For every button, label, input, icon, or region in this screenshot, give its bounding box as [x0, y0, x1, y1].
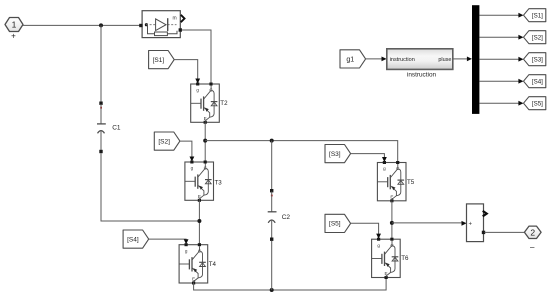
wire instruction to demux	[453, 58, 468, 60]
wire S3 to T5 gate	[351, 154, 385, 158]
wire g1 to instruction	[366, 58, 382, 60]
svg-text:[S5]: [S5]	[329, 221, 341, 228]
svg-text:T5: T5	[407, 179, 415, 186]
svg-text:T3: T3	[215, 179, 223, 186]
svg-text:1: 1	[12, 20, 17, 30]
from tag [S5]	[325, 214, 351, 232]
from tag [S1]	[149, 51, 175, 69]
node T5E junction	[390, 221, 394, 225]
IGBT T6	[372, 238, 409, 279]
goto tag [S4]	[524, 75, 546, 88]
svg-text:[S3]: [S3]	[532, 57, 543, 64]
wire junction to measurement	[392, 222, 462, 224]
svg-text:instruction: instruction	[407, 71, 437, 78]
wire demux to goto S3	[479, 58, 519, 60]
svg-text:T2: T2	[220, 100, 228, 107]
wire T3 emitter down	[198, 200, 200, 243]
goto tag [S5]	[524, 97, 546, 110]
svg-text:instruction: instruction	[390, 57, 415, 63]
wire demux to goto S2	[479, 36, 519, 38]
from tag [S4]	[123, 230, 149, 248]
svg-text:C1: C1	[112, 124, 121, 131]
node C2 bottom	[270, 288, 274, 292]
wire T2 emitter to bus	[204, 122, 206, 161]
svg-text:[S4]: [S4]	[532, 79, 543, 86]
wire demux to goto S4	[479, 80, 519, 82]
wire demux to goto S5	[479, 102, 519, 104]
node C2 top branch	[270, 139, 274, 143]
from tag [S2]	[154, 132, 180, 150]
output port 2	[524, 226, 541, 251]
svg-text:[S5]: [S5]	[532, 101, 543, 108]
wire T4 emitter to bottom bus	[194, 278, 387, 290]
svg-text:2: 2	[530, 227, 535, 237]
node T2E bus	[203, 139, 207, 143]
wire S4 to T4 gate	[149, 238, 186, 241]
voltage measurement block	[467, 204, 487, 242]
wire S2 to T3 gate	[180, 141, 192, 157]
wire diode out to T2 collector	[182, 30, 212, 83]
wire S1 to T2 gate	[174, 60, 198, 79]
svg-text:+: +	[11, 32, 16, 41]
node junction C1 top	[99, 23, 103, 27]
goto tag [S1]	[524, 9, 546, 22]
svg-text:[S2]: [S2]	[532, 35, 543, 42]
wire measurement to port 2	[485, 231, 525, 233]
svg-text:[S4]: [S4]	[127, 236, 139, 243]
svg-text:C2: C2	[282, 214, 291, 221]
IGBT T2	[191, 83, 228, 124]
capacitor C2	[268, 141, 291, 290]
IGBT T5	[377, 161, 414, 202]
capacitor C1	[97, 25, 199, 221]
wire S5 to T6 gate	[351, 223, 379, 234]
from tag [S3]	[325, 145, 351, 163]
svg-text:[S1]: [S1]	[532, 13, 543, 20]
demux	[472, 5, 479, 114]
svg-text:T6: T6	[401, 255, 409, 262]
svg-text:m: m	[173, 16, 177, 22]
from tag g1	[340, 50, 366, 68]
svg-text:+: +	[468, 221, 472, 227]
IGBT T3	[185, 161, 222, 202]
subsystem instruction	[387, 49, 453, 79]
wire input1 to diode	[23, 24, 140, 26]
svg-text:T4: T4	[209, 261, 217, 268]
svg-text:–: –	[530, 243, 535, 252]
svg-text:[S1]: [S1]	[153, 57, 165, 64]
svg-text:pluse: pluse	[438, 57, 451, 63]
IGBT T4	[179, 243, 216, 284]
goto tag [S2]	[524, 31, 546, 44]
svg-text:[S2]: [S2]	[158, 138, 170, 145]
svg-text:g1: g1	[346, 57, 354, 64]
goto tag [S3]	[524, 53, 546, 66]
input port 1	[5, 18, 23, 41]
svg-text:[S3]: [S3]	[329, 151, 341, 158]
wire middle bus	[205, 141, 398, 162]
wire T5 emitter down to T6	[391, 201, 393, 238]
wire demux to goto S1	[479, 14, 519, 16]
diode D1 block	[139, 11, 184, 38]
node C1 line join	[197, 219, 201, 223]
